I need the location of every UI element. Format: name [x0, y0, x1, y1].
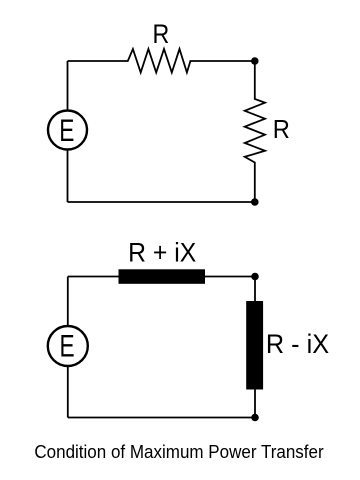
- svg-text:Condition of Maximum Power Tra: Condition of Maximum Power Transfer: [34, 441, 323, 462]
- svg-text:R - iX: R - iX: [266, 328, 329, 359]
- svg-text:R: R: [273, 116, 290, 144]
- svg-text:R + iX: R + iX: [128, 236, 196, 267]
- svg-text:E: E: [59, 112, 74, 148]
- svg-text:E: E: [60, 328, 75, 364]
- svg-text:R: R: [152, 19, 169, 49]
